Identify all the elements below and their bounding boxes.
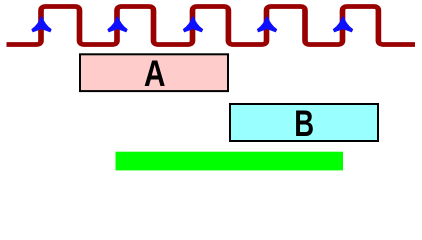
- svg-text:B: B: [294, 103, 314, 144]
- arrow 1: [31, 17, 51, 33]
- svg-text:A: A: [144, 54, 166, 94]
- green bar: [116, 152, 344, 171]
- arrow 2: [107, 17, 127, 33]
- box B: [230, 104, 378, 141]
- arrow 3: [183, 17, 203, 33]
- arrow 5: [333, 17, 353, 33]
- clock waveform: [7, 7, 415, 45]
- arrow 4: [257, 17, 277, 33]
- box A: [80, 54, 228, 91]
